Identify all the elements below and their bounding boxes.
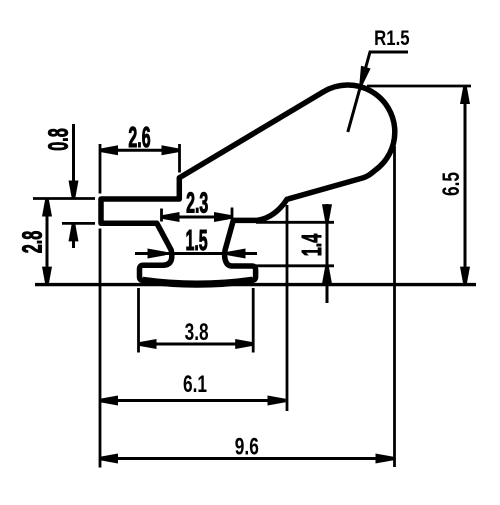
svg-text:6.5: 6.5 bbox=[438, 172, 464, 196]
dimension 0.8 bbox=[33, 124, 95, 248]
radius callout R1.5 bbox=[348, 28, 410, 132]
svg-text:9.6: 9.6 bbox=[235, 434, 259, 460]
svg-text:1.5: 1.5 bbox=[186, 224, 208, 256]
dimension 2.3 bbox=[162, 186, 233, 222]
svg-text:R1.5: R1.5 bbox=[374, 28, 410, 51]
dimension 9.6 bbox=[100, 146, 395, 467]
dimension 1.5 bbox=[135, 224, 257, 259]
dimension 3.8 bbox=[139, 288, 254, 353]
svg-text:2.3: 2.3 bbox=[186, 186, 208, 218]
dimension 1.4 bbox=[254, 204, 334, 303]
svg-text:1.4: 1.4 bbox=[295, 234, 327, 257]
dimension 6.5 bbox=[367, 86, 471, 285]
seal profile outline bbox=[101, 85, 395, 284]
svg-text:3.8: 3.8 bbox=[185, 319, 209, 345]
svg-text:0.8: 0.8 bbox=[42, 128, 74, 151]
dimension 2.6 bbox=[100, 121, 180, 194]
svg-text:2.8: 2.8 bbox=[16, 231, 48, 254]
dimension 6.1 bbox=[100, 205, 287, 468]
dimension 2.8 bbox=[16, 199, 52, 285]
svg-text:2.6: 2.6 bbox=[128, 121, 150, 153]
baseline datum line bbox=[35, 283, 476, 286]
svg-text:6.1: 6.1 bbox=[183, 371, 207, 397]
